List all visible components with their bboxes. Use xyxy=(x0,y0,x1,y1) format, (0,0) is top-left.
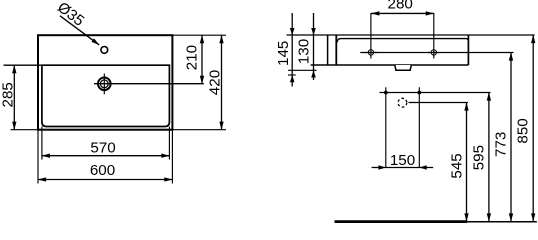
dimension 595: dimension line with arrows xyxy=(488,93,490,222)
supply dot left vertical line xyxy=(385,87,387,167)
side view: top surface line xyxy=(287,34,535,36)
svg-text:773: 773 xyxy=(493,132,510,157)
svg-text:130: 130 xyxy=(296,39,313,64)
fixing hole left vertical + 280 extension line xyxy=(370,13,372,59)
svg-text:420: 420 xyxy=(207,70,224,95)
plan view: outer rim rectangle xyxy=(38,35,172,130)
drain dashed circle xyxy=(398,98,407,107)
fixing hole left circle xyxy=(368,50,373,55)
dimension 145: bottom arrow xyxy=(290,75,295,82)
plan view: tap hole circle xyxy=(101,47,108,54)
fixing hole right circle xyxy=(431,50,436,55)
plan view: drain horizontal crosshair + 210 extension line xyxy=(94,83,204,85)
dimension 570: right extension line xyxy=(168,127,170,160)
dimension 570: dimension line with arrows xyxy=(42,155,169,157)
dimension 145: top arrow xyxy=(290,28,295,35)
dimension 210/420: top extension line xyxy=(172,34,226,36)
dimension 850: dimension line with arrows xyxy=(532,35,534,221)
dimension 600: dimension line with arrows xyxy=(38,179,172,181)
dimension 130: dimension line xyxy=(313,13,315,80)
svg-text:595: 595 xyxy=(471,145,488,170)
supply dot right xyxy=(417,91,421,95)
floor line thick part xyxy=(335,220,468,223)
side view: drain trap bump xyxy=(395,65,412,70)
side view: front face xyxy=(467,35,469,65)
supply dot left xyxy=(384,91,388,95)
dimension 145: bottom extension line xyxy=(288,74,296,76)
svg-text:545: 545 xyxy=(449,153,466,178)
dimension 130: top arrow xyxy=(311,28,316,35)
dimension 150: left outside arrow xyxy=(378,165,385,170)
svg-text:600: 600 xyxy=(90,162,115,179)
side view: fixing holes line + 773 extension xyxy=(360,52,513,54)
dimension 600: right extension line xyxy=(171,130,173,184)
side view: back wall edge xyxy=(327,35,329,65)
plan view: inner basin rectangle xyxy=(42,65,169,126)
svg-text:280: 280 xyxy=(388,0,413,12)
svg-text:210: 210 xyxy=(183,45,200,70)
leader arrow for Ø35 xyxy=(60,16,99,45)
svg-text:285: 285 xyxy=(0,82,17,107)
svg-text:145: 145 xyxy=(275,41,292,66)
svg-text:570: 570 xyxy=(90,140,115,157)
fixing hole left crosshair xyxy=(365,52,378,54)
dimension 600: left extension line xyxy=(37,130,39,184)
dimension 285: top extension line xyxy=(4,64,42,66)
fixing hole right crosshair xyxy=(428,52,441,54)
side view: rim front inner line xyxy=(337,39,468,43)
supply dots line + 595 extension xyxy=(380,92,491,94)
dimension 210: dimension line with arrows xyxy=(201,35,203,84)
dimension 130: bottom arrow xyxy=(311,70,316,77)
drain level line + 545 extension xyxy=(409,102,469,104)
fixing hole right vertical + 280 extension line xyxy=(433,13,435,59)
supply dot right vertical line xyxy=(418,87,420,167)
svg-text:Ø35: Ø35 xyxy=(54,0,87,30)
side view: bottom line xyxy=(311,64,469,66)
dimension 130: bottom extension line xyxy=(288,69,317,71)
plan view: drain outer circle xyxy=(98,78,111,91)
dimension 545: dimension line with arrows xyxy=(466,103,468,222)
dimension 570: left extension line xyxy=(41,127,43,160)
dimension 285: dimension line with arrows xyxy=(13,65,15,130)
dimension 285: bottom extension line xyxy=(11,129,39,131)
floor line thin part xyxy=(467,221,537,223)
side view: body back edge xyxy=(335,35,337,65)
dimension 420: bottom extension line xyxy=(172,129,226,131)
plan view: drain vertical crosshair xyxy=(103,74,105,95)
dimension 280: dimension line with arrows xyxy=(371,12,434,14)
svg-text:150: 150 xyxy=(390,152,415,169)
plan view: drain inner circle xyxy=(100,80,108,88)
dimension 145: dimension line xyxy=(291,13,293,87)
dimension 773: dimension line with arrows xyxy=(510,53,512,222)
svg-text:850: 850 xyxy=(515,118,532,143)
dimension 150: dimension line xyxy=(372,167,434,169)
dimension 150: right outside arrow xyxy=(419,165,426,170)
dimension 420: dimension line with arrows xyxy=(221,35,223,130)
